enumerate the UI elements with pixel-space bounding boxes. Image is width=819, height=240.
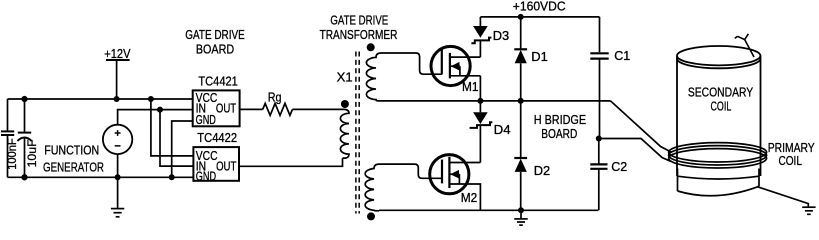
wire GND of TC4421 to ground rail [172, 121, 193, 177]
svg-text:COIL: COIL [711, 99, 732, 114]
svg-text:FUNCTION: FUNCTION [44, 143, 99, 158]
node D4 top [477, 98, 483, 104]
svg-text:H BRIDGE: H BRIDGE [534, 112, 587, 127]
svg-text:C1: C1 [614, 48, 630, 63]
svg-text:M1: M1 [462, 80, 479, 94]
capacitor 100nF [1, 99, 14, 177]
antenna wire on secondary [735, 34, 754, 57]
svg-text:10uF: 10uF [27, 139, 39, 167]
phase dot primary [341, 100, 349, 108]
wire FG plus to IN of TC4421 [118, 110, 193, 125]
wire VCC feeder to TC4422 [151, 99, 194, 156]
wire bottom ground rail [379, 209, 598, 211]
wire FG minus to ground rail [117, 154, 119, 177]
svg-text:C2: C2 [611, 159, 627, 174]
secondary coil cylinder [677, 46, 761, 176]
resistor Rg [263, 103, 293, 115]
wire bottom rail left [8, 176, 194, 178]
wire output B to primary coil [599, 139, 671, 162]
label GATE DRIVE TRANSFORMER [320, 12, 398, 41]
transformer X1 secondary bottom winding [365, 164, 379, 211]
diode D1 [514, 14, 527, 101]
svg-text:GATE DRIVE: GATE DRIVE [330, 12, 388, 27]
label FUNCTION GENERATOR [43, 143, 104, 175]
IC TC4421 [193, 90, 240, 127]
wire secondary top to M1 gate [381, 53, 442, 74]
wire IN feeder to TC4422 [160, 110, 193, 167]
svg-text:BOARD: BOARD [196, 41, 234, 56]
wire secondary bottom to M2 gate [379, 164, 442, 178]
capacitor C2 [590, 139, 607, 211]
svg-text:GENERATOR: GENERATOR [43, 160, 104, 175]
MOSFET M1 [431, 46, 480, 85]
svg-text:GND: GND [196, 169, 216, 183]
source FUNCTION GENERATOR [103, 125, 132, 154]
coil base [678, 169, 760, 196]
node cap junctions [22, 96, 28, 180]
label H BRIDGE BOARD [534, 112, 587, 141]
wire M1 source to mid rail [479, 76, 481, 101]
ground below H bridge [514, 210, 527, 225]
svg-text:TC4421: TC4421 [198, 74, 237, 89]
wire Rg to transformer primary [292, 108, 344, 110]
wire TC4421 OUT to Rg [240, 108, 263, 110]
capacitor C1 [590, 17, 608, 139]
svg-text:GND: GND [196, 113, 216, 127]
ground right [802, 207, 815, 214]
MOSFET M2 [430, 155, 481, 211]
svg-text:100nF: 100nF [7, 138, 19, 170]
svg-text:GATE DRIVE: GATE DRIVE [185, 27, 245, 42]
svg-text:+160VDC: +160VDC [513, 0, 566, 14]
wire top rail left [8, 98, 193, 100]
svg-text:OUT: OUT [216, 102, 236, 116]
node ground junction [518, 207, 524, 213]
node IN branch [157, 107, 163, 113]
svg-text:TC4422: TC4422 [197, 130, 237, 145]
svg-text:+12V: +12V [104, 46, 130, 61]
node GND feeder junction [169, 174, 175, 180]
label GATE DRIVE BOARD [185, 27, 245, 56]
svg-text:D3: D3 [493, 28, 510, 43]
node D1 bottom [518, 98, 524, 104]
svg-text:M2: M2 [461, 191, 478, 205]
wire +160VDC top rail [480, 16, 599, 18]
label SECONDARY COIL [688, 84, 754, 113]
svg-text:D4: D4 [494, 122, 511, 137]
node VCC branch [148, 96, 154, 102]
node output B [596, 136, 602, 142]
capacitor 10uF [17, 99, 31, 177]
phase dot secondary top [367, 43, 375, 51]
svg-text:X1: X1 [337, 69, 353, 84]
svg-text:Rg: Rg [268, 90, 282, 105]
power +12V [106, 59, 130, 102]
diode D4 zener [470, 101, 493, 163]
diode D2 [514, 101, 527, 210]
wire half-bridge mid rail [379, 100, 611, 102]
diode D3 zener [471, 17, 491, 57]
svg-text:D2: D2 [534, 163, 551, 178]
wire TC4422 OUT to transformer primary [239, 158, 343, 166]
svg-text:OUT: OUT [216, 160, 236, 174]
ground below function generator [111, 177, 124, 217]
transformer core [356, 52, 359, 214]
transformer X1 primary winding [340, 109, 349, 158]
phase dot secondary bottom [367, 212, 375, 220]
node FG ground junction [115, 174, 121, 180]
svg-text:D1: D1 [531, 49, 548, 64]
primary coil rings [669, 143, 767, 168]
IC TC4422 [193, 147, 239, 183]
svg-text:TRANSFORMER: TRANSFORMER [320, 27, 398, 42]
svg-text:SECONDARY: SECONDARY [688, 84, 754, 99]
svg-text:COIL: COIL [778, 153, 802, 168]
label PRIMARY COIL [768, 140, 815, 168]
transformer X1 secondary top winding [366, 53, 381, 101]
svg-text:BOARD: BOARD [541, 126, 577, 141]
wire primary coil to ground [757, 187, 808, 207]
wire output A to primary coil [611, 101, 672, 152]
